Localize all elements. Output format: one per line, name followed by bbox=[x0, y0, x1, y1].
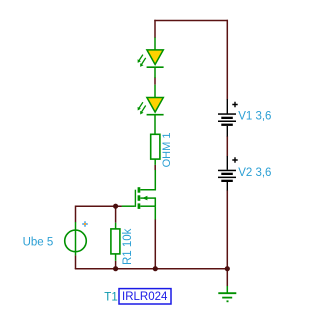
voltage source Ube bbox=[75, 222, 77, 255]
battery V2 bbox=[218, 156, 238, 191]
node junction R1/bottom rail bbox=[113, 266, 118, 271]
wire battery mid net V1-V2 bbox=[226, 136, 228, 156]
svg-text:OHM 1: OHM 1 bbox=[161, 133, 173, 168]
svg-text:V2 3,6: V2 3,6 bbox=[238, 167, 271, 179]
wire R1 top net bbox=[115, 206, 117, 223]
wire top-right drop to battery V1 bbox=[226, 20, 228, 100]
wire top rail bbox=[154, 20, 228, 22]
wire net resistor OHM1 to MOSFET drain bbox=[154, 165, 156, 170]
wire MOSFET source net down bbox=[154, 219, 156, 269]
transistor Q1 / MOSFET T1 bbox=[122, 170, 156, 220]
wire Ube bottom drop bbox=[75, 255, 77, 269]
LED D1 bbox=[138, 38, 164, 79]
svg-text:Ube 5: Ube 5 bbox=[23, 236, 54, 248]
battery V1 bbox=[218, 99, 238, 137]
wire ground net bbox=[226, 269, 228, 286]
wire net LED1 cathode to LED2 anode bbox=[154, 77, 156, 84]
wire R1 top pin bbox=[115, 223, 117, 229]
resistor OHM 1 bbox=[151, 134, 160, 159]
node junction gate/R1 bbox=[113, 204, 118, 209]
wire top-left drop to LED1 anode bbox=[154, 20, 156, 38]
plus mark Ube bbox=[82, 221, 88, 227]
svg-text:T1: T1 bbox=[104, 291, 117, 303]
wire resistor OHM1 bottom pin bbox=[154, 159, 156, 165]
node junction ground/bottom rail bbox=[225, 266, 230, 271]
svg-text:IRLR024: IRLR024 bbox=[122, 291, 168, 303]
wire battery V2 bottom net bbox=[226, 190, 228, 269]
wire R1 bottom net bbox=[115, 261, 117, 269]
wire bottom rail bbox=[75, 268, 228, 270]
wire gate net bbox=[76, 205, 122, 207]
resistor R1 bbox=[111, 229, 120, 254]
node junction source/bottom rail bbox=[153, 266, 158, 271]
wire R1 bottom pin bbox=[115, 254, 117, 261]
svg-text:V1 3,6: V1 3,6 bbox=[238, 111, 271, 123]
LED D2 bbox=[138, 85, 164, 135]
svg-text:R1 10k: R1 10k bbox=[122, 228, 134, 265]
wire Ube top drop bbox=[75, 206, 77, 223]
ground bbox=[218, 286, 236, 301]
part value box IRLR024 bbox=[119, 289, 171, 304]
